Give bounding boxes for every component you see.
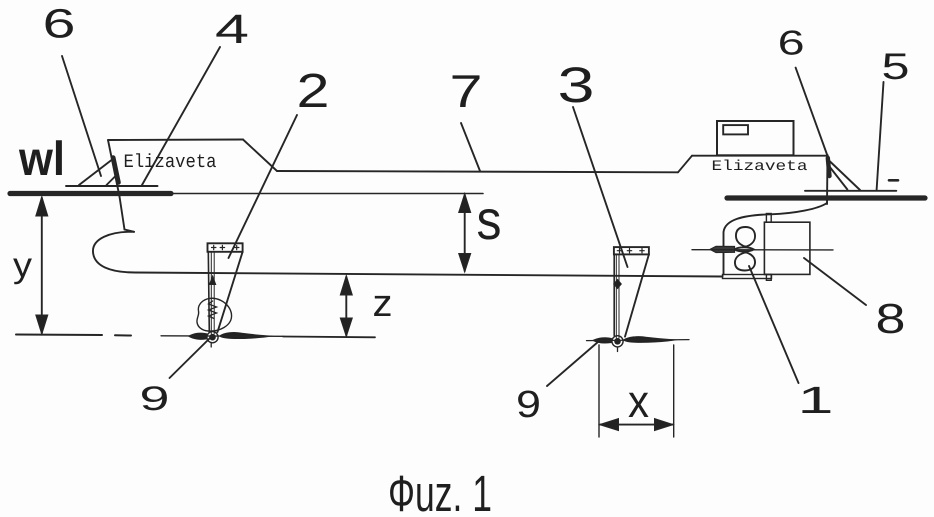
leader from 2 to left strut xyxy=(229,115,298,258)
middle prop hub dot xyxy=(614,338,621,345)
stem foot hook xyxy=(125,230,135,232)
hull bottom line xyxy=(135,273,723,277)
left strut left edge xyxy=(208,252,209,332)
middle prop blade left xyxy=(593,338,612,343)
dimension x extension line right xyxy=(673,345,675,437)
left prop blade right xyxy=(220,332,273,338)
stem below waterline xyxy=(120,197,125,230)
svg-text:5: 5 xyxy=(882,46,910,87)
deckhouse window xyxy=(723,125,748,134)
sheer slant down to main deck xyxy=(243,140,277,172)
middle prop hub xyxy=(612,336,623,347)
waterline thin extension xyxy=(171,193,483,195)
middle prop lower stub xyxy=(617,347,619,352)
baseline segment left xyxy=(16,334,102,337)
forecastle deck xyxy=(108,139,243,142)
left plate fasteners xyxy=(212,245,239,249)
baseline dash xyxy=(115,334,131,336)
svg-text:Elizaveta: Elizaveta xyxy=(712,159,808,175)
stern pod bottom plate xyxy=(723,275,772,279)
left prop lower stub xyxy=(210,343,212,347)
waterline bar (stern) xyxy=(727,195,925,200)
dimension s arrow xyxy=(459,194,471,273)
leader from 1 to stern propeller xyxy=(749,266,799,383)
left prop axis line xyxy=(161,335,283,338)
middle prop axis line xyxy=(587,340,690,341)
left prop blade left xyxy=(189,333,207,339)
leader from 4 to bow platform xyxy=(142,47,220,185)
stern underwater curve xyxy=(724,203,828,275)
svg-text:1: 1 xyxy=(798,380,834,422)
left thruster top plate xyxy=(208,243,243,252)
stern pod bottom step xyxy=(766,275,771,281)
left spring xyxy=(209,301,217,319)
left up arrow xyxy=(210,276,216,285)
svg-text:z: z xyxy=(373,283,393,325)
svg-text:2: 2 xyxy=(297,65,330,118)
stern propeller hub lens xyxy=(735,247,754,251)
motor box 8 xyxy=(764,222,810,274)
stern propeller upper lobe xyxy=(736,227,755,247)
dimension z arrow xyxy=(340,276,352,337)
svg-text:3: 3 xyxy=(558,57,595,113)
deckhouse xyxy=(717,121,794,155)
dimension y arrow xyxy=(36,197,48,335)
bow bulwark inner stay xyxy=(107,177,116,186)
left pod blob xyxy=(197,298,232,331)
left shaft lines xyxy=(211,252,214,334)
leader from middle 9 to middle propeller xyxy=(547,342,599,387)
quarterdeck line xyxy=(692,155,828,157)
bow bulwark thick stroke xyxy=(113,158,118,183)
freeboard reference dash xyxy=(889,179,898,182)
leader from 7 to deck line xyxy=(461,123,480,171)
leader from 8 to motor box xyxy=(804,258,866,305)
stern bulwark diagonal B xyxy=(829,166,847,190)
leader from right 6 to transom xyxy=(796,68,829,160)
svg-text:4: 4 xyxy=(215,6,249,52)
svg-text:s: s xyxy=(477,188,502,251)
middle shaft lines xyxy=(616,254,619,338)
bow underwater C-curve xyxy=(93,232,135,273)
stern platform line xyxy=(805,190,896,192)
bow platform line xyxy=(66,185,158,187)
stern spinner (hatched bullet) xyxy=(710,246,735,252)
dimension x extension line left xyxy=(598,345,600,437)
middle shaft diamond xyxy=(614,280,622,289)
leader from 5 to stern waterline xyxy=(877,82,884,190)
middle strut left edge xyxy=(613,254,615,335)
leader from left 9 to left propeller xyxy=(170,337,212,378)
svg-text:y: y xyxy=(13,246,33,285)
svg-text:wl: wl xyxy=(18,133,65,186)
motor box tab xyxy=(766,214,771,223)
left prop hub dot xyxy=(209,334,216,341)
bow bulwark hypotenuse xyxy=(79,159,114,186)
main deck line xyxy=(277,171,678,172)
stern bulwark diagonal A xyxy=(830,161,861,190)
transom thick stroke xyxy=(828,158,830,176)
stern propeller lower lobe xyxy=(735,253,755,271)
middle prop blade right xyxy=(624,337,677,343)
stem above waterline xyxy=(108,140,120,197)
svg-text:7: 7 xyxy=(450,65,483,117)
svg-text:6: 6 xyxy=(778,25,805,63)
svg-text:8: 8 xyxy=(876,295,906,342)
svg-text:6: 6 xyxy=(43,1,76,47)
svg-text:x: x xyxy=(628,375,649,427)
leader from 6 to bow bulwark xyxy=(62,56,101,176)
leader from 3 to middle strut xyxy=(573,107,628,267)
baseline segment right of left prop xyxy=(283,336,375,339)
svg-text:Фuz. 1: Фuz. 1 xyxy=(388,465,492,517)
transom xyxy=(826,155,829,204)
svg-text:Elizaveta: Elizaveta xyxy=(124,151,217,173)
left strut right edge xyxy=(218,252,243,332)
left prop hub xyxy=(207,332,218,343)
stern shaft centerline xyxy=(692,249,833,251)
svg-text:9: 9 xyxy=(140,380,170,418)
dimension x arrow xyxy=(600,419,674,431)
middle strut right edge xyxy=(625,254,649,336)
svg-text:9: 9 xyxy=(516,384,541,426)
middle plate fasteners xyxy=(617,249,644,253)
quarterdeck slant xyxy=(678,156,692,173)
middle thruster top plate xyxy=(614,247,649,254)
waterline bar (bow) xyxy=(10,191,171,196)
